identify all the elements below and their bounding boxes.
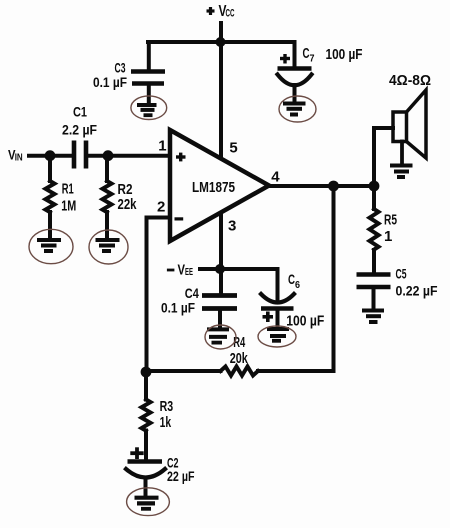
node speaker junction — [369, 181, 380, 192]
speaker LS1 (4-8 ohm) — [393, 90, 426, 158]
node -VEE (negative supply net label) — [167, 269, 175, 272]
svg-text:C1: C1 — [73, 103, 87, 119]
resistor R5 — [370, 186, 379, 273]
svg-text:22 µF: 22 µF — [167, 468, 195, 484]
wire VCC stub — [219, 23, 223, 42]
svg-text:1: 1 — [384, 228, 392, 245]
wire pin 5 vertical — [219, 42, 223, 158]
resistor R1 — [46, 156, 55, 239]
wire VEE rail — [200, 267, 278, 271]
svg-text:1: 1 — [158, 138, 166, 155]
ground (R2, circled) — [89, 230, 128, 264]
svg-text:100 µF: 100 µF — [326, 46, 363, 63]
svg-text:LM1875: LM1875 — [192, 180, 235, 196]
ground (C5) — [362, 311, 384, 323]
svg-text:CC: CC — [226, 8, 235, 20]
svg-text:C5: C5 — [396, 266, 407, 282]
wire C7 drop — [293, 42, 297, 66]
ground (C7, circled) — [279, 96, 316, 122]
node VCC junction — [216, 37, 226, 47]
svg-text:20k: 20k — [230, 350, 248, 367]
capacitor C5 — [357, 275, 391, 310]
node +VCC (positive supply net label) — [207, 7, 215, 15]
capacitor C7 (electrolytic) — [278, 54, 312, 101]
svg-text:1k: 1k — [160, 414, 172, 431]
svg-text:R3: R3 — [160, 398, 174, 415]
wire input right segment — [89, 154, 171, 158]
svg-text:0.22 µF: 0.22 µF — [396, 282, 438, 298]
svg-text:0.1 µF: 0.1 µF — [161, 299, 195, 315]
wire feedback right vertical — [332, 186, 336, 371]
op-amp U1 LM1875 (triangle body) — [170, 130, 269, 241]
node input junction A — [45, 150, 56, 161]
wire speaker ground stub — [400, 142, 404, 164]
capacitor C2 (electrolytic) — [126, 447, 165, 495]
svg-text:100 µF: 100 µF — [286, 313, 324, 330]
svg-text:7: 7 — [310, 53, 315, 65]
ground (speaker) — [390, 166, 413, 178]
wire top supply rail — [148, 40, 295, 44]
resistor R2 — [103, 156, 112, 239]
wire input left segment — [29, 154, 70, 158]
op-amp inverting - mark — [175, 217, 184, 220]
svg-text:3: 3 — [228, 217, 236, 234]
node output junction (feedback tap) — [328, 181, 339, 192]
resistor R3 — [142, 372, 151, 460]
svg-text:5: 5 — [229, 139, 237, 156]
svg-text:EE: EE — [185, 267, 193, 278]
svg-text:22k: 22k — [118, 196, 137, 213]
svg-text:2: 2 — [157, 199, 165, 216]
svg-text:C: C — [288, 271, 295, 287]
svg-text:4: 4 — [271, 168, 280, 185]
capacitor C1 — [74, 141, 86, 169]
wire feedback bottom left segment — [146, 369, 221, 373]
wire inverting input rail — [147, 218, 171, 372]
svg-text:6: 6 — [295, 279, 300, 291]
node VEE junction — [215, 264, 225, 274]
node input junction B — [103, 150, 114, 161]
label C7 — [303, 46, 315, 64]
svg-text:0.1 µF: 0.1 µF — [93, 74, 127, 90]
wire speaker drop — [374, 128, 393, 186]
ground (R1, circled) — [29, 229, 73, 263]
wire feedback bottom right segment — [258, 369, 334, 373]
resistor R4 — [221, 367, 259, 376]
ground (C4, circled) — [205, 325, 236, 349]
svg-text:IN: IN — [15, 152, 23, 163]
op-amp noninverting + mark — [176, 153, 186, 162]
wire pin 3 vertical — [219, 213, 223, 294]
ground (C6, circled) — [258, 326, 296, 347]
ground (C3, circled) — [131, 96, 167, 120]
wire C3 drop — [147, 42, 151, 69]
capacitor C3 — [131, 72, 165, 103]
capacitor C6 (electrolytic) — [261, 294, 294, 328]
label C6 — [288, 271, 300, 291]
svg-text:R5: R5 — [384, 212, 397, 229]
node VIN (input net label) — [8, 147, 23, 164]
svg-text:2.2 µF: 2.2 µF — [62, 122, 97, 138]
capacitor C4 — [202, 296, 237, 330]
node feedback junction — [141, 367, 152, 378]
svg-text:R1: R1 — [62, 181, 74, 198]
wire C6 drop — [276, 269, 280, 301]
svg-text:4Ω-8Ω: 4Ω-8Ω — [389, 73, 431, 89]
svg-text:1M: 1M — [61, 197, 76, 214]
svg-text:C3: C3 — [115, 59, 126, 75]
wire output (pin 4) — [269, 184, 374, 188]
ground (C2, circled) — [127, 488, 170, 516]
